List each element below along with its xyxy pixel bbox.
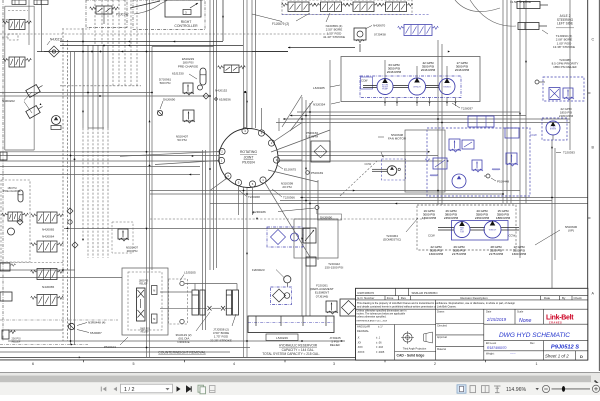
rotating joint ports [218, 128, 279, 187]
zone letters right [592, 37, 595, 295]
svg-text:41.43" STROKE: 41.43" STROKE [323, 35, 345, 39]
prev page button [114, 386, 118, 391]
svg-text:LEFT SIDE: LEFT SIDE [557, 22, 573, 26]
svg-text:Date: Date [486, 310, 492, 313]
label T2J0393 [556, 151, 575, 155]
svg-text:CCW: CCW [428, 234, 435, 238]
svg-text:By: By [562, 296, 566, 300]
pump enclosure box [341, 57, 480, 102]
svg-text:L8J0185: L8J0185 [313, 86, 325, 90]
svg-text:P5J0101: P5J0101 [104, 345, 116, 349]
svg-text:500 PSI: 500 PSI [160, 81, 171, 85]
valve top-edge-a [12, 0, 26, 5]
svg-text:± 1°: ± 1° [378, 325, 383, 329]
label 22 GPM steering [559, 107, 574, 118]
label F2R0023 [252, 268, 291, 287]
valve regen [303, 228, 316, 243]
label 15 GPM [496, 209, 511, 220]
valve edge-0 [0, 152, 7, 160]
label CCW winch2 [509, 234, 516, 238]
svg-text:T2J0368: T2J0368 [248, 195, 260, 199]
svg-text:REFERENCE ANSI Y14.5 - 2009: REFERENCE ANSI Y14.5 - 2009 [357, 319, 388, 322]
svg-text:DWG HYD SCHEMATIC: DWG HYD SCHEMATIC [499, 332, 570, 339]
label 26 GPM [444, 209, 459, 220]
svg-text:TOR: TOR [460, 231, 465, 233]
svg-text:L5J0205: L5J0205 [184, 271, 196, 275]
cw enclosure [122, 268, 168, 335]
label N4J0064 [42, 235, 55, 239]
cylinder cw-2a [226, 290, 231, 315]
valve edge-b [0, 292, 12, 301]
label P9J0142 [116, 0, 168, 17]
svg-text:CCW: CCW [365, 162, 372, 166]
horizontal scrollbar [0, 372, 600, 383]
svg-text:114.96%: 114.96% [506, 387, 526, 393]
label CAPACITY 144 [282, 348, 315, 352]
svg-text:RELIEF: RELIEF [139, 283, 148, 285]
svg-text:2016 RPM: 2016 RPM [387, 70, 402, 74]
svg-text:65J1330: 65J1330 [172, 72, 184, 76]
svg-text:N3J0354: N3J0354 [313, 103, 326, 107]
svg-text:SWING: SWING [443, 87, 451, 89]
valve N4J0064 [31, 241, 64, 252]
pump symbol bottom-left [51, 116, 61, 130]
cw side box M2 [152, 314, 158, 323]
svg-text:2450 RPM: 2450 RPM [444, 216, 459, 220]
svg-text:Date: Date [544, 296, 550, 300]
svg-text:None: None [519, 318, 532, 324]
check valve N4J0211 [44, 46, 60, 57]
svg-text:1690 RPM: 1690 RPM [422, 216, 437, 220]
valve top-edge-b [34, 0, 48, 5]
enclosure box accum [152, 46, 214, 48]
relief cluster-4 [506, 153, 518, 166]
label N3R0448 (4) [77, 321, 105, 326]
valve cluster-5 [505, 128, 519, 138]
label 20 GPM [475, 209, 490, 220]
svg-text:Sheet 1 of 2: Sheet 1 of 2 [545, 353, 569, 358]
fan motor circle [372, 166, 400, 176]
svg-text:P9J0512 S: P9J0512 S [551, 345, 579, 351]
steer pump blue box [542, 118, 567, 140]
valve N4R0202-a [3, 20, 32, 30]
label D size [580, 354, 583, 359]
svg-text:22.25" STROKE: 22.25" STROKE [210, 338, 232, 342]
svg-text:R187495070: R187495070 [487, 346, 507, 350]
label R187495070 cell [358, 291, 439, 295]
svg-text:WINCH: WINCH [489, 230, 497, 232]
spring cluster-8 [430, 169, 500, 177]
relief D7J0961 [183, 83, 194, 95]
svg-text:Revision Description: Revision Description [460, 296, 488, 300]
filter F2J0261 [271, 287, 292, 305]
cw side box M1 [152, 286, 158, 295]
label CCW pump1 [361, 77, 373, 89]
valve cluster blue box [427, 128, 530, 196]
svg-text:Drawn: Drawn [437, 310, 445, 313]
svg-text:2180 RPM: 2180 RPM [559, 114, 574, 118]
label AXLE 2 STEERING LEFT SIDE [556, 14, 574, 28]
label N3J0659 block [323, 13, 345, 39]
svg-text:R187495070: R187495070 [358, 291, 375, 295]
svg-text:Material: Material [437, 348, 446, 351]
label J7J0358 block [210, 314, 236, 342]
svg-text:L5J0229: L5J0229 [276, 336, 288, 340]
cw test ports [180, 281, 184, 323]
svg-text:F2R0023: F2R0023 [252, 268, 265, 272]
svg-text:5: 5 [133, 362, 135, 366]
cylinder cw-1a [192, 290, 199, 315]
svg-text:A: A [592, 291, 595, 295]
label P5J0101 [104, 337, 128, 349]
svg-text:CCW: CCW [361, 79, 368, 83]
third angle projection symbol [401, 331, 433, 344]
pump BOOM HOIST [377, 78, 393, 94]
svg-text:± .0005: ± .0005 [376, 351, 385, 354]
label L5J0229 [266, 334, 298, 341]
svg-text:D: D [580, 354, 583, 359]
accumulator left [8, 190, 24, 235]
label 42 GPM [421, 61, 436, 72]
svg-text:2016 RPM: 2016 RPM [421, 68, 436, 72]
label 22 GPM d [429, 245, 444, 256]
svg-text:± .1: ± .1 [376, 337, 381, 340]
zoom dropdown arrow [536, 388, 539, 390]
valve N4J0065 [31, 212, 64, 223]
cw orifice valve-1 [208, 306, 212, 311]
svg-text:2450 RPM: 2450 RPM [475, 216, 490, 220]
label N4J0152 [215, 89, 228, 93]
zoom slider handle [562, 386, 565, 392]
svg-text:P5J0169: P5J0169 [311, 171, 323, 175]
title mid labels [437, 310, 447, 351]
cylinder cw-1b [200, 290, 205, 315]
pump shaft domestic [438, 228, 519, 231]
svg-text:Checked: Checked [437, 325, 447, 328]
wire arrowheads [66, 41, 553, 359]
accumulator E5J0229 [198, 68, 210, 99]
cw orifice valve-2 [221, 306, 225, 311]
svg-text:1850 PSI RELIEF: 1850 PSI RELIEF [553, 65, 577, 69]
svg-text:P9J0104: P9J0104 [242, 161, 255, 165]
cw dashed inner [128, 272, 162, 330]
svg-text:N4J0064: N4J0064 [42, 235, 55, 239]
label E1J0675 [277, 165, 296, 172]
title tolerance text [357, 309, 407, 322]
svg-text:TOTAL SYSTEM CAPACITY = 215 GA: TOTAL SYSTEM CAPACITY = 215 GAL. [262, 352, 320, 356]
controller dash-dot box [133, 0, 205, 30]
label DWG HYD SCHEMATIC [499, 332, 570, 339]
svg-text:CAPACITY = 144 GAL.: CAPACITY = 144 GAL. [282, 348, 315, 352]
title block frame [356, 288, 588, 360]
valve N4J0670 [354, 28, 366, 52]
label T2J0422 150-1500 PSI [325, 262, 344, 270]
svg-text:RELIEF: RELIEF [141, 331, 150, 333]
svg-text:WINCH: WINCH [413, 87, 421, 89]
valve edge-a [0, 263, 15, 271]
svg-text:CONTROLLER: CONTROLLER [174, 24, 198, 28]
svg-text:S2R0186: S2R0186 [253, 210, 266, 214]
svg-text:C: C [592, 37, 595, 41]
label S2R0186 [253, 206, 319, 215]
rotating joint radial wires [120, 91, 330, 257]
label L8J0185 [313, 85, 340, 90]
label 1865 PSI RELIEF top [139, 281, 149, 286]
title row2 headers [358, 296, 583, 300]
filter P5J0166 [311, 141, 330, 162]
svg-text:Zone: Zone [387, 296, 394, 300]
valve priority blue [549, 88, 560, 100]
label J7J0225 5 PSI RELIEF [329, 336, 341, 347]
svg-text:N4J0670: N4J0670 [373, 24, 386, 28]
domestic dashed box [417, 205, 516, 250]
symbol H port [535, 80, 545, 84]
label Scale cell [517, 310, 532, 324]
svg-text:C R A N E S: C R A N E S [549, 322, 562, 325]
svg-text:PRE-CHARGE: PRE-CHARGE [178, 64, 198, 68]
filter diamond regen [271, 230, 299, 245]
valve outrigger-1 [282, 2, 316, 12]
svg-text:2: 2 [434, 362, 436, 366]
cw test box dashed [169, 279, 188, 324]
label T2J0390 block [542, 30, 575, 49]
svg-text:07J6146): 07J6146) [316, 294, 329, 298]
label Third Angle Projection [403, 347, 427, 350]
svg-text:± .06: ± .06 [376, 341, 382, 344]
svg-text:13.38" STROKE: 13.38" STROKE [553, 45, 575, 49]
pump top stubs [385, 60, 447, 79]
label T2J0366 [272, 189, 295, 200]
relief cluster-6 [472, 160, 483, 172]
label N5J0606 XP [535, 225, 577, 245]
svg-text:CAD - Solid Edge: CAD - Solid Edge [397, 354, 425, 358]
scrollbar thumb [0, 375, 591, 383]
svg-text:T2J0366: T2J0366 [283, 196, 295, 200]
label N3J0399 20 PSI [281, 182, 294, 190]
label T2J0422-b [0, 0, 1, 1]
cw wires [160, 284, 237, 309]
label Date cell [486, 310, 507, 322]
title block inner lines [356, 300, 588, 360]
label 200 PSI RELIEF [12, 338, 21, 344]
relief priority [563, 88, 574, 100]
svg-text:PUMP: PUMP [382, 89, 388, 91]
label CCW steer [530, 133, 537, 137]
label COUNTERWEIGHT REMOVAL [158, 351, 206, 355]
svg-text:ANGULAR: ANGULAR [357, 325, 370, 329]
valve T2J0422 [306, 257, 316, 266]
relief lower accum [183, 110, 195, 123]
label T2J0364 DOMESTIC [383, 218, 418, 242]
wire topleft dashes [8, 10, 28, 12]
svg-text:CCW: CCW [509, 234, 516, 238]
label RIGHT CONTROLLER [174, 20, 198, 28]
sheet border bottom [0, 357, 588, 360]
copy page icon [198, 385, 206, 394]
pump domestic box [452, 221, 509, 241]
sheet border right [588, 0, 600, 371]
svg-text:SIMILAR P9J0505O: SIMILAR P9J0505O [412, 291, 439, 295]
label CCW fan [365, 152, 385, 166]
relief J7J0225 [326, 301, 338, 314]
logo Link-Belt [546, 315, 574, 325]
valve V-topleft2 dashes [2, 20, 18, 40]
label T2J8037 [452, 103, 473, 111]
page number box [121, 384, 173, 393]
label 31.50 STROKE [510, 0, 531, 4]
label 65J1330 [172, 72, 197, 80]
cylinder tilt-a [26, 82, 45, 97]
svg-text:2/15/2019: 2/15/2019 [486, 317, 507, 322]
relief N5J0407-left [112, 222, 133, 253]
left dashed enclosure [1, 180, 30, 262]
left controller dash-dot box [86, 0, 127, 28]
label 17 GPM d [512, 245, 527, 256]
label N4R0202 [2, 92, 32, 113]
regen blue box [267, 227, 303, 247]
cylinder axle2-a [517, 2, 548, 9]
svg-text:Scale: Scale [517, 310, 524, 313]
svg-text:P9J0142: P9J0142 [116, 13, 129, 17]
svg-text:E.O. Number: E.O. Number [358, 296, 375, 300]
wire horizontal bus group [0, 34, 588, 352]
filter diamond J7J0225 [340, 299, 357, 316]
svg-text:65J0087: 65J0087 [90, 331, 102, 335]
label N4J0670 [366, 24, 386, 29]
label 19 GPM [422, 209, 437, 220]
svg-text:This drawing is the property o: This drawing is the property of Link-Bel… [357, 301, 516, 305]
label N4J0065 [42, 228, 55, 232]
svg-text:STEER: STEER [550, 128, 557, 130]
wire steering leaders [455, 0, 516, 26]
svg-text:200 PSI: 200 PSI [127, 249, 138, 253]
svg-text:JOINT: JOINT [244, 156, 254, 160]
svg-text:31.50" STROKE: 31.50" STROKE [510, 0, 531, 4]
svg-text:DECIMAL: DECIMAL [357, 329, 369, 333]
label P5J0448 [484, 174, 509, 184]
svg-text:07J0438: 07J0438 [374, 33, 386, 37]
valve blue 4way [398, 25, 439, 36]
wire top connect [252, 47, 355, 52]
label HYDRAULIC RESERVOIR [279, 344, 318, 348]
svg-text:1865 PSI: 1865 PSI [140, 329, 150, 331]
zoom percent text [506, 387, 526, 393]
zoom slider track [552, 387, 591, 389]
svg-text:1: 1 [536, 362, 538, 366]
label 63 GPM [387, 63, 402, 74]
label 29 GPM d [452, 245, 467, 256]
label D7J0961 500 PSI [159, 78, 172, 86]
label 28 GPM d [489, 245, 504, 256]
zone ticks right [588, 93, 591, 218]
label CCW fanpump [428, 234, 435, 238]
svg-text:(XP): (XP) [568, 229, 574, 233]
valve N4J0152 [218, 65, 246, 73]
enclosure mid [405, 130, 445, 192]
label T2J0368 [239, 191, 260, 199]
svg-text:.X: .X [357, 337, 360, 340]
cw valve spool [137, 288, 146, 321]
svg-text:50 PSI: 50 PSI [177, 138, 186, 142]
svg-text:N4J0152: N4J0152 [215, 89, 228, 93]
svg-text:ROTATING: ROTATING [240, 150, 257, 154]
label 1865 PSI RELIEF bot [140, 329, 150, 334]
valve outrigger-4 [379, 2, 413, 12]
label N5J0407 50 PSI [176, 135, 189, 143]
label CAD Solid Edge [397, 354, 425, 358]
valve outrigger-2 [314, 2, 348, 12]
valve outrigger-3 [347, 2, 381, 12]
label F2J0261 block [310, 284, 334, 299]
svg-text:Third Angle Projection: Third Angle Projection [403, 347, 427, 350]
label P5J0169 [306, 171, 324, 175]
pump LOAD STEER [546, 121, 560, 140]
valve cluster-2 [425, 158, 447, 169]
wire junction dots [62, 41, 553, 349]
zoom out button [542, 385, 549, 392]
label Weight [486, 352, 516, 356]
svg-text:COUNTERWEIGHT REMOVAL: COUNTERWEIGHT REMOVAL [158, 351, 206, 355]
svg-text:.XX: .XX [357, 341, 361, 344]
label ED Level Rev [486, 342, 535, 350]
label 180 PSI PRE-CHARGE [3, 186, 21, 193]
first page button [101, 386, 106, 391]
svg-text:150-1500 PSI: 150-1500 PSI [325, 266, 344, 270]
svg-text:Weight:: Weight: [486, 353, 495, 356]
svg-text:.XXXX: .XXXX [357, 351, 365, 354]
zone numbers bottom [32, 362, 538, 366]
svg-text:T2J0393: T2J0393 [563, 151, 575, 155]
label ROTATING JOINT P9J0104 [240, 150, 257, 165]
label P5J0166 1.5 GPM [306, 131, 318, 139]
page icon 2 [210, 385, 216, 392]
continuous icon [494, 386, 501, 393]
svg-text:B: B [592, 145, 595, 149]
svg-text:D6J0690: D6J0690 [163, 98, 176, 102]
svg-text:ED Level: ED Level [486, 342, 497, 345]
pump blue dashed box [360, 76, 461, 98]
orifice symbols left [67, 208, 78, 248]
label 65J0087 [77, 330, 102, 336]
svg-text:6: 6 [32, 362, 34, 366]
label 07J0438 [374, 33, 386, 37]
svg-text:65J8536: 65J8536 [219, 98, 231, 102]
label T2J0389 priority [552, 58, 579, 69]
arrow up left [40, 103, 42, 105]
svg-text:N4J0211: N4J0211 [50, 38, 63, 42]
pump WINCH-1 [409, 78, 426, 95]
svg-text:1.5 GPM: 1.5 GPM [306, 135, 318, 139]
title tolerance table [357, 325, 385, 354]
svg-text:T2J8037: T2J8037 [461, 107, 473, 111]
label F1J0679 (2) [252, 13, 310, 26]
label 65J8536 [215, 98, 231, 102]
valve small left1 [2, 212, 29, 221]
svg-text:Approval: Approval [437, 336, 447, 339]
zoom in button [592, 385, 599, 392]
orifice N3R0448 [68, 323, 74, 329]
orifice D6J0690 [157, 110, 162, 115]
svg-text:3: 3 [185, 11, 187, 15]
svg-text:3: 3 [333, 362, 335, 366]
svg-text:CCW: CCW [530, 133, 537, 137]
label D6J0690-a [160, 98, 176, 110]
svg-text:1880 RPM: 1880 RPM [496, 216, 511, 220]
scrollbar right arrow [593, 375, 600, 383]
valve cluster-3 [468, 116, 494, 127]
rotating joint P9J0104 [219, 129, 278, 188]
svg-text:N4J0065: N4J0065 [42, 228, 55, 232]
